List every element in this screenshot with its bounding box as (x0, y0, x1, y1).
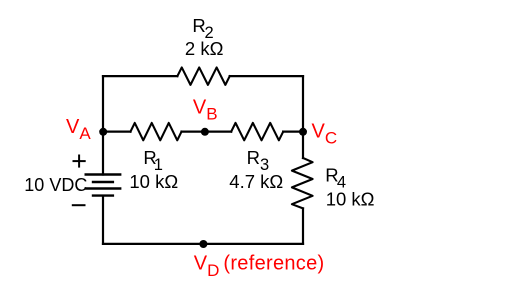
node B junction dot (201, 128, 209, 136)
resistor R2 (177, 67, 229, 84)
wire right vertical upper (302, 76, 304, 158)
wire middle center (182, 131, 232, 133)
battery minus sign (72, 204, 86, 206)
node C junction dot (299, 128, 307, 136)
battery V1 (85, 175, 122, 196)
svg-text:4.7 kΩ: 4.7 kΩ (229, 171, 283, 192)
wire top-left horizontal (103, 75, 177, 77)
wire middle left (103, 131, 131, 133)
node D junction dot (199, 240, 207, 248)
svg-text:10 kΩ: 10 kΩ (326, 188, 375, 209)
wire left vertical lower (102, 196, 104, 244)
wire top-right horizontal (230, 75, 303, 77)
svg-text:10 kΩ: 10 kΩ (129, 171, 178, 192)
resistor R3 (231, 123, 283, 140)
wire right vertical lower (302, 208, 304, 244)
resistor R1 (131, 123, 182, 140)
node A junction dot (99, 128, 107, 136)
wire bottom horizontal (103, 243, 303, 245)
wire left vertical upper (102, 76, 104, 174)
svg-text:10 VDC: 10 VDC (24, 175, 87, 195)
resistor R4 (292, 158, 313, 208)
svg-text:2 kΩ: 2 kΩ (185, 38, 224, 59)
wire middle right (283, 131, 303, 133)
battery plus sign (73, 155, 86, 168)
